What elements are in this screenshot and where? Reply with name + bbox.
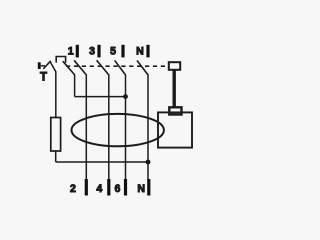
svg-text:2: 2 (70, 183, 76, 195)
pole 3 switch blade (97, 60, 109, 75)
pole 1 terminal bar bottom (85, 179, 88, 196)
trip connector block (169, 107, 181, 114)
test button contact blade lower (50, 62, 56, 72)
test button contact blade upper (43, 61, 51, 69)
wire test tap horizontal (75, 96, 126, 98)
test button actuator plate (38, 62, 41, 69)
pole 5 terminal bar bottom (124, 179, 127, 196)
svg-text:N: N (137, 183, 145, 195)
pole 5 switch blade (115, 60, 126, 75)
pole 1 lower conductor (85, 75, 87, 180)
wire test button down to resistor (55, 72, 57, 118)
svg-text:4: 4 (96, 183, 102, 195)
svg-text:1: 1 (68, 46, 74, 58)
svg-text:3: 3 (89, 46, 95, 58)
mechanism actuator square (169, 62, 180, 70)
pole 3 lower conductor (108, 75, 110, 180)
pole 1 switch blade (74, 60, 86, 75)
pole 3 terminal bar top (97, 45, 100, 58)
resistor R (test resistor) (51, 118, 61, 152)
test switch blade (63, 61, 75, 75)
current transformer core (toroid) (72, 114, 164, 146)
test switch fixed contact staple (56, 57, 65, 63)
pole 5 lower conductor (125, 75, 127, 180)
pole 1 terminal bar top (76, 45, 79, 58)
trip relay box U1 (158, 112, 192, 147)
mechanism dashed linkage line (66, 65, 169, 67)
svg-text:N: N (136, 46, 144, 58)
test button stem (41, 65, 45, 67)
wire resistor bottom (55, 151, 57, 162)
pole N switch blade (137, 61, 148, 75)
pole N terminal bar bottom (147, 179, 150, 196)
wire test switch down (74, 75, 76, 97)
junction dot on N (146, 160, 151, 165)
pole 5 terminal bar top (121, 45, 124, 58)
svg-text:5: 5 (110, 46, 116, 58)
pole 3 terminal bar bottom (107, 179, 110, 196)
svg-text:6: 6 (114, 183, 120, 195)
svg-text:T: T (40, 72, 47, 84)
pole N lower conductor (147, 75, 149, 180)
wire test bottom horizontal to N (56, 161, 148, 163)
pole N terminal bar top (146, 45, 149, 58)
trip linkage thick bar (172, 70, 175, 108)
junction dot on pole 5 (123, 94, 128, 99)
